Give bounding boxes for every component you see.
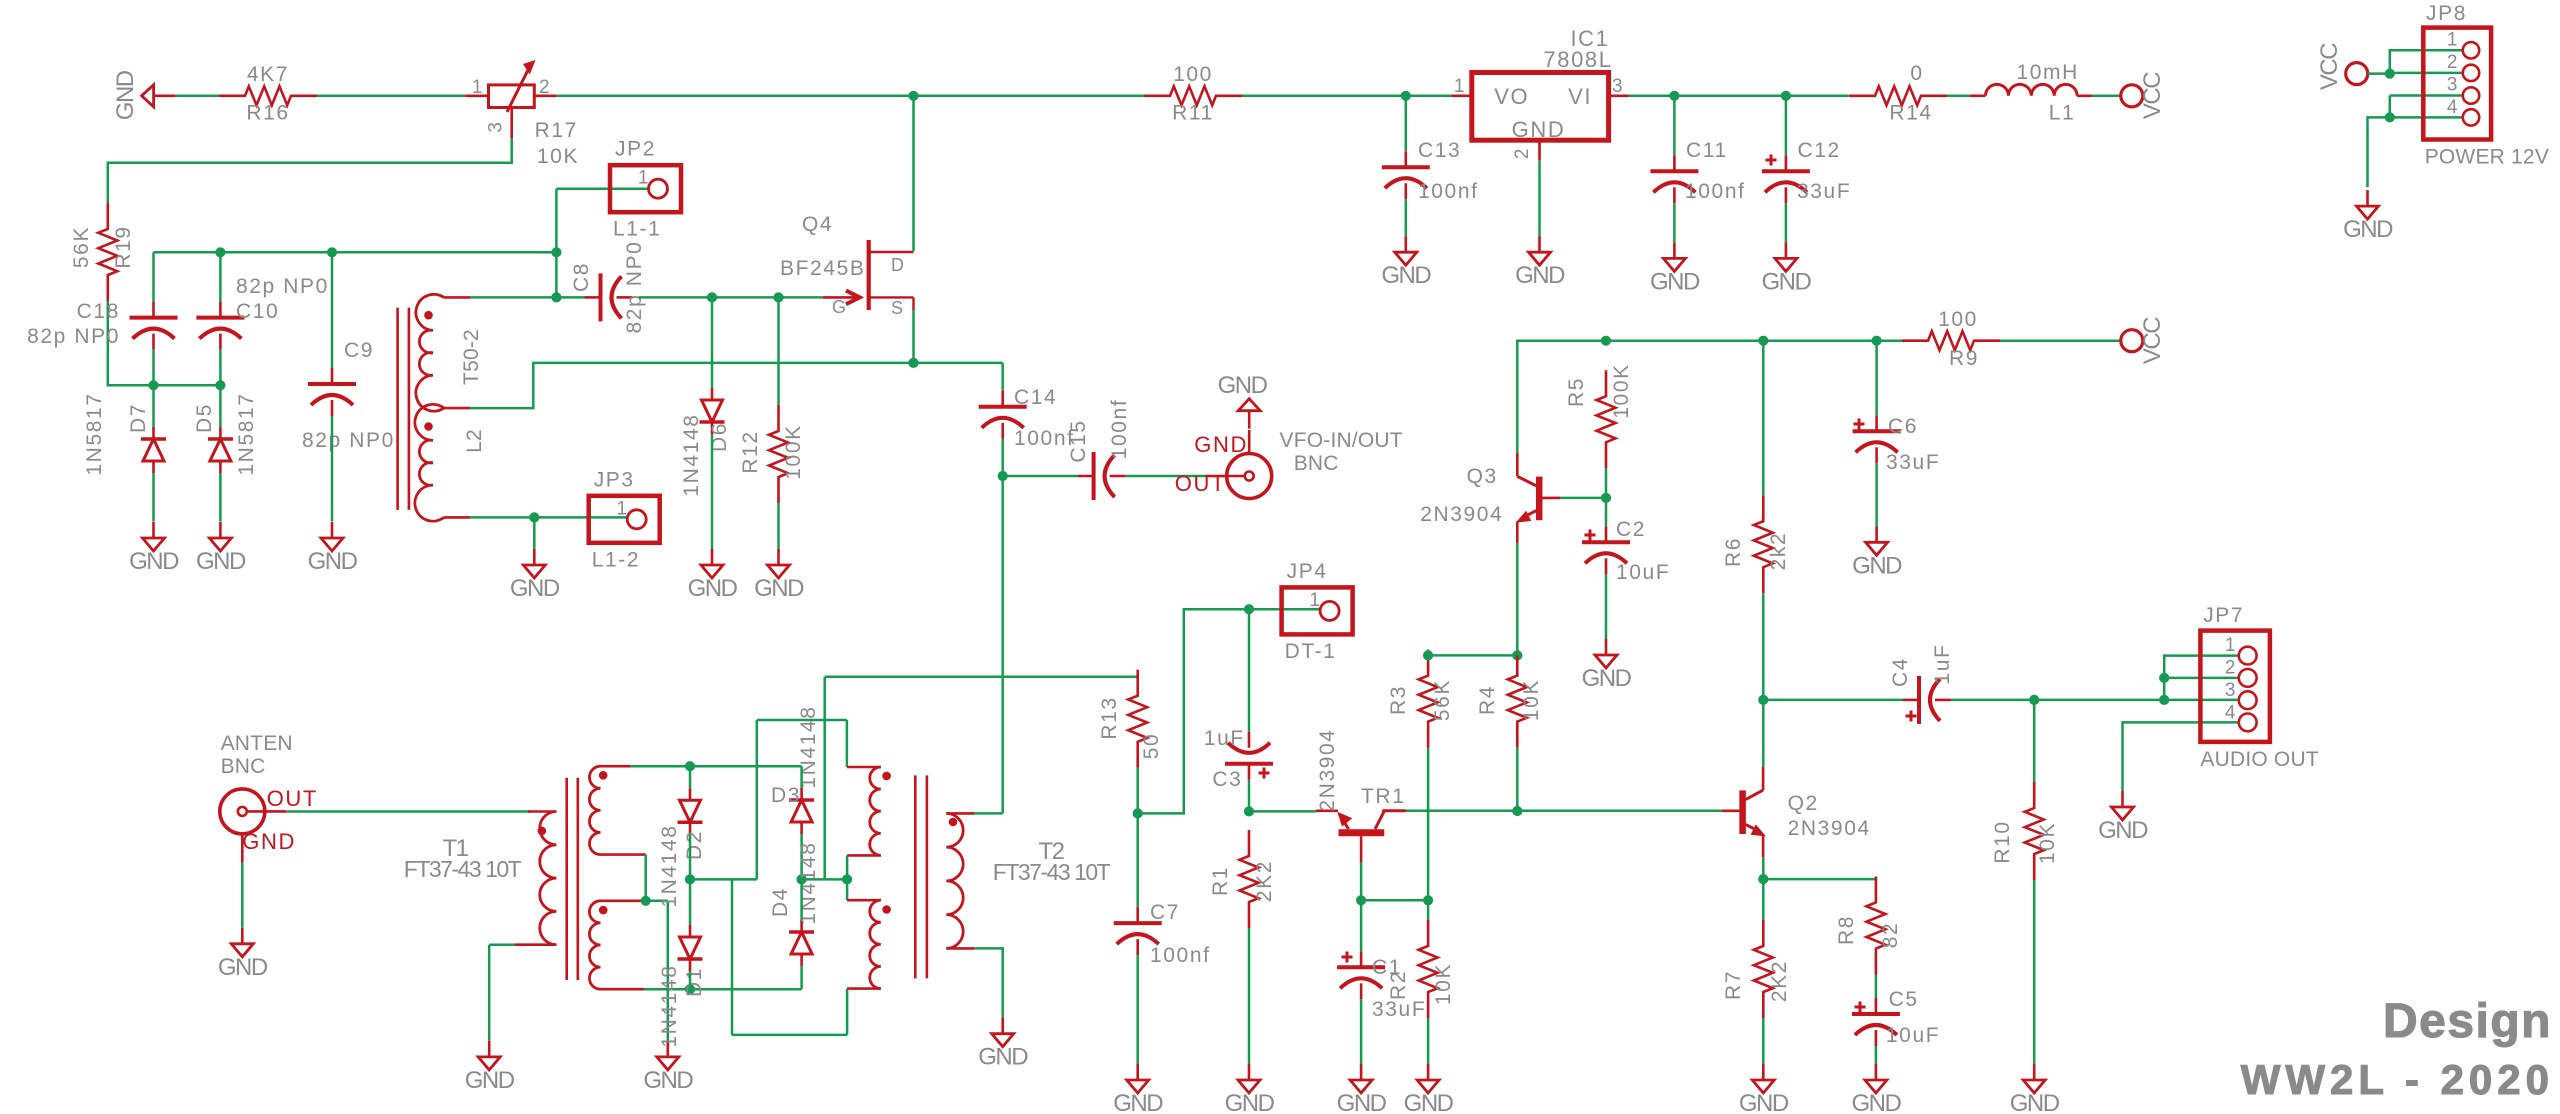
ground GND (left of R16)	[112, 70, 176, 120]
svg-text:33uF: 33uF	[1886, 451, 1940, 474]
svg-text:VCC: VCC	[2139, 317, 2166, 364]
wire (TR1 emitter)	[1249, 810, 1316, 813]
wire	[800, 766, 803, 879]
svg-text:GND: GND	[1512, 117, 1566, 142]
capacitor C8	[570, 241, 646, 334]
ground (D6)	[688, 549, 738, 602]
svg-text:GND: GND	[1337, 1090, 1387, 1114]
svg-text:FT37-43 10T: FT37-43 10T	[404, 856, 522, 882]
svg-text:3: 3	[1612, 76, 1624, 97]
svg-text:82p NP0: 82p NP0	[623, 241, 646, 334]
transistor TR1 2N3904	[1316, 728, 1406, 862]
ground (D7)	[129, 522, 179, 575]
junction (T1 bottom/D1)	[685, 984, 695, 994]
svg-text:C2: C2	[1616, 518, 1646, 541]
ground (C12)	[1761, 242, 1811, 295]
junction (rail end)	[551, 247, 561, 257]
wire	[1136, 955, 1139, 1064]
junction (R5/C2/base)	[1601, 493, 1611, 503]
wire	[1629, 95, 1849, 98]
wire (source)	[912, 310, 915, 363]
wire	[1605, 468, 1608, 498]
wire	[2092, 95, 2120, 98]
resistor R8	[1835, 877, 1902, 975]
svg-text:GND: GND	[1650, 268, 1700, 295]
ground (R7)	[1739, 1064, 1789, 1114]
capacitor C18	[27, 300, 177, 350]
svg-text:BNC: BNC	[1294, 452, 1339, 475]
svg-text:100nf: 100nf	[1685, 180, 1746, 203]
wire	[152, 252, 155, 301]
svg-text:D7: D7	[127, 403, 150, 433]
wire	[1001, 439, 1004, 476]
ground (C13)	[1381, 236, 1431, 289]
connector JP3 L1-2	[589, 468, 660, 571]
wire (BNC to T1)	[286, 810, 531, 813]
svg-text:GND: GND	[1515, 262, 1565, 289]
ground (C9)	[308, 522, 358, 575]
svg-text:C4: C4	[1889, 657, 1912, 687]
svg-text:R4: R4	[1476, 685, 1499, 715]
wire (R17 pin3 to R19)	[108, 138, 512, 203]
resistor R16	[219, 63, 317, 125]
wire	[777, 297, 780, 549]
wire (sec bottom row)	[645, 988, 802, 991]
svg-text:R7: R7	[1722, 970, 1745, 1000]
junction (R6/C4 rail)	[1758, 695, 1768, 705]
capacitor C7	[1114, 901, 1211, 967]
svg-text:Q3: Q3	[1467, 465, 1498, 488]
svg-text:R8: R8	[1835, 915, 1858, 945]
svg-text:L2: L2	[463, 429, 486, 453]
junction (GND/JP8)	[2385, 112, 2395, 122]
svg-text:1N4148: 1N4148	[680, 413, 703, 496]
junction (Q3 emitter)	[1512, 650, 1522, 660]
wire	[1126, 475, 1205, 478]
power pin VCC (R9)	[2121, 317, 2166, 364]
wire (82p rail)	[154, 251, 557, 254]
svg-text:GND: GND	[688, 575, 738, 602]
svg-text:56K: 56K	[70, 226, 93, 268]
ground (T1 primary)	[465, 1041, 515, 1094]
wire	[108, 301, 221, 385]
resistor R11	[1144, 63, 1242, 125]
svg-text:GND: GND	[1739, 1090, 1789, 1114]
junction (R4/base Q2)	[1512, 806, 1522, 816]
svg-text:VCC: VCC	[2139, 72, 2166, 119]
svg-text:C5: C5	[1889, 988, 1919, 1011]
wire (to JP4)	[1138, 609, 1249, 813]
junction (T1 top/D2)	[685, 761, 695, 771]
ground (R2)	[1404, 1064, 1454, 1114]
wire	[1785, 203, 1788, 242]
wire (C14 drop to T2)	[1001, 476, 1004, 813]
svg-text:C10: C10	[236, 300, 279, 323]
wire	[317, 95, 465, 98]
wire	[689, 766, 692, 879]
junction (center tap T2)	[842, 874, 852, 884]
wire (JP7 pin4)	[2123, 722, 2239, 791]
wire	[2390, 96, 2463, 118]
svg-text:GND: GND	[1218, 372, 1268, 399]
wire	[1947, 95, 1970, 98]
svg-text:100: 100	[1173, 63, 1213, 86]
svg-text:3: 3	[486, 120, 507, 132]
svg-text:JP2: JP2	[615, 138, 656, 161]
svg-text:R13: R13	[1098, 696, 1121, 739]
svg-text:2K2: 2K2	[1768, 960, 1791, 1002]
capacitor C4	[1889, 644, 1954, 724]
junction (rail/C6)	[1872, 336, 1882, 346]
power pin VCC (after L1)	[2121, 72, 2166, 119]
connector JP2 L1-1	[610, 138, 681, 241]
text Design	[2383, 995, 2552, 1048]
svg-text:0: 0	[1910, 62, 1923, 85]
wire	[2033, 700, 2036, 1064]
wire	[1538, 161, 1541, 237]
svg-text:VI: VI	[1568, 84, 1592, 109]
svg-text:R9: R9	[1949, 347, 1979, 370]
junction (TR1 base)	[1356, 895, 1366, 905]
junction (top rail / C13)	[1401, 91, 1411, 101]
svg-text:JP7: JP7	[2203, 604, 2244, 627]
svg-text:D4: D4	[769, 887, 792, 917]
junction (T1 center)	[641, 896, 651, 906]
connector X2 ANTEN BNC	[220, 732, 318, 862]
wire	[1875, 1046, 1878, 1064]
capacitor C2	[1582, 518, 1670, 584]
ground (C7)	[1113, 1064, 1163, 1114]
svg-text:WW2L - 2020: WW2L - 2020	[2241, 1056, 2554, 1103]
svg-text:R12: R12	[739, 430, 762, 473]
svg-text:10mH: 10mH	[2016, 61, 2078, 84]
svg-text:82p NP0: 82p NP0	[236, 275, 329, 298]
wire	[1673, 96, 1676, 156]
svg-text:C15: C15	[1067, 419, 1090, 462]
ground (L2)	[510, 549, 560, 602]
wire	[1248, 780, 1251, 812]
svg-text:FT37-43 10T: FT37-43 10T	[993, 859, 1111, 885]
junction (C3/R1/TR1-e)	[1244, 806, 1254, 816]
resistor R6	[1722, 495, 1790, 593]
svg-text:1: 1	[472, 77, 484, 98]
wire	[711, 297, 714, 549]
svg-text:JP4: JP4	[1287, 560, 1328, 583]
svg-text:GND: GND	[308, 548, 358, 575]
resistor R19	[70, 203, 135, 301]
transistor Q2 2N3904	[1722, 767, 1871, 858]
svg-text:D: D	[891, 255, 906, 275]
wire	[974, 812, 1003, 815]
wire	[489, 945, 515, 1041]
junction (R13/C7/JP4)	[1133, 808, 1143, 818]
wire	[1405, 199, 1408, 236]
svg-text:R11: R11	[1172, 102, 1214, 125]
svg-text:Design: Design	[2383, 995, 2552, 1048]
svg-text:C8: C8	[570, 262, 593, 292]
svg-text:2N3904: 2N3904	[1316, 728, 1339, 811]
svg-text:ANTEN: ANTEN	[221, 732, 293, 755]
svg-text:AUDIO OUT: AUDIO OUT	[2200, 748, 2318, 771]
svg-text:GND: GND	[510, 575, 560, 602]
svg-text:C14: C14	[1014, 386, 1057, 409]
svg-text:R17: R17	[535, 119, 578, 142]
transistor Q3 2N3904	[1420, 453, 1560, 544]
wire	[1673, 203, 1676, 242]
svg-text:100nf: 100nf	[1418, 180, 1479, 203]
ground (IC1)	[1515, 236, 1565, 289]
svg-text:3: 3	[2225, 680, 2237, 701]
connector JP4 DT-1	[1282, 560, 1353, 663]
wire (rail drop)	[823, 677, 826, 879]
ground (C5)	[1851, 1064, 1901, 1114]
wire (top link)	[757, 720, 847, 879]
diode D2	[658, 788, 706, 907]
junction (D3/D4)	[797, 874, 807, 884]
svg-text:4: 4	[2447, 97, 2459, 118]
svg-text:100nf: 100nf	[1150, 944, 1211, 967]
svg-text:G: G	[832, 297, 848, 317]
wire	[800, 879, 803, 989]
svg-text:C6: C6	[1888, 415, 1918, 438]
wire	[470, 296, 556, 299]
wire	[1875, 341, 1878, 527]
transformer L2 winding (bottom)	[415, 404, 486, 521]
svg-text:TR1: TR1	[1361, 785, 1405, 808]
wire (Q3 emitter)	[1516, 543, 1519, 655]
svg-text:4: 4	[2225, 703, 2237, 724]
svg-text:1: 1	[638, 168, 650, 189]
junction (JP4)	[1244, 604, 1254, 614]
svg-text:GND: GND	[1761, 268, 1811, 295]
wire	[1427, 748, 1430, 901]
wire	[331, 416, 334, 522]
wire	[1248, 928, 1251, 1064]
wire	[176, 95, 219, 98]
diode D7	[83, 392, 166, 475]
junction (rail/C10)	[215, 247, 225, 257]
capacitor C9	[302, 339, 395, 452]
wire (Q2 emitter)	[1762, 857, 1765, 879]
svg-text:100nf: 100nf	[1108, 399, 1131, 460]
svg-text:56K: 56K	[1431, 679, 1454, 721]
IC IC1 7808L regulator	[1452, 26, 1629, 161]
wire	[1360, 900, 1363, 951]
wire (to R8)	[1763, 877, 1876, 880]
wire (R3/R4 row)	[1428, 654, 1517, 657]
svg-text:1N4148: 1N4148	[658, 964, 681, 1047]
wire	[1763, 699, 1903, 702]
wire	[219, 252, 222, 301]
svg-text:1uF: 1uF	[1931, 644, 1954, 685]
junction (rail/R6)	[1758, 336, 1768, 346]
junction (R12)	[773, 292, 783, 302]
wire (JP7 pin2)	[2164, 677, 2239, 680]
svg-text:L1-2: L1-2	[592, 548, 640, 571]
svg-text:OUT: OUT	[1175, 471, 1226, 496]
svg-text:S: S	[891, 298, 905, 318]
junction (JP7 pin2)	[2159, 673, 2169, 683]
wire	[1605, 498, 1608, 639]
wire (JP7 pin1)	[2164, 656, 2239, 700]
svg-text:BNC: BNC	[221, 755, 266, 778]
wire (middle tap to source rail)	[470, 363, 1003, 408]
ground (C11)	[1650, 242, 1700, 295]
svg-text:GND: GND	[465, 1067, 515, 1094]
resistor R5	[1565, 363, 1633, 468]
wire	[2368, 117, 2390, 187]
ground (T1 center tap)	[643, 1041, 693, 1094]
svg-text:GND: GND	[978, 1044, 1028, 1071]
transformer L2 winding (top)	[416, 294, 483, 411]
resistor R12	[739, 405, 805, 503]
wire (center tap to gnd)	[646, 901, 668, 1041]
diode D3	[771, 705, 820, 834]
wire	[1361, 899, 1428, 902]
wire (Q3 collector)	[1517, 341, 1902, 453]
svg-text:2k2: 2k2	[1767, 532, 1790, 571]
svg-text:GND: GND	[1113, 1090, 1163, 1114]
junction (C18/D7)	[148, 380, 158, 390]
capacitor C6	[1853, 415, 1941, 474]
transformer T1 core	[567, 778, 578, 980]
capacitor C12	[1762, 139, 1851, 203]
svg-text:C7: C7	[1150, 901, 1180, 924]
svg-text:82: 82	[1879, 922, 1902, 949]
transformer T1 primary winding	[404, 812, 557, 945]
power pin VCC (JP8)	[2316, 43, 2368, 90]
wire (ring left)	[690, 879, 847, 1035]
junction (D6)	[707, 292, 717, 302]
wire	[533, 517, 536, 549]
svg-text:10K: 10K	[1432, 963, 1455, 1005]
wire	[219, 385, 222, 521]
wire	[1136, 768, 1139, 814]
connector X1 VFO BNC	[1175, 372, 1403, 499]
svg-text:GND: GND	[643, 1067, 693, 1094]
junction (JP7 pin3)	[2159, 695, 2169, 705]
capacitor C11	[1650, 139, 1745, 203]
svg-text:GND: GND	[2343, 216, 2393, 243]
svg-text:C9: C9	[344, 339, 374, 362]
wire	[1248, 609, 1251, 732]
junction (R3 top)	[1423, 650, 1433, 660]
svg-text:GND: GND	[218, 954, 268, 981]
junction (rail/R5)	[1601, 336, 1611, 346]
wire (drain)	[912, 96, 915, 252]
wire	[1136, 813, 1139, 907]
ground (R12)	[754, 549, 804, 602]
svg-text:33uF: 33uF	[1372, 998, 1426, 1021]
wire	[1762, 341, 1765, 700]
svg-text:2: 2	[1512, 147, 1533, 159]
ground (T2 secondary)	[978, 1018, 1028, 1071]
svg-text:R14: R14	[1889, 102, 1932, 125]
wire (TR1 base)	[1360, 862, 1363, 900]
wire	[1785, 96, 1788, 156]
wire (TR1 collector)	[1406, 810, 1722, 813]
svg-text:L1: L1	[2049, 102, 2076, 125]
svg-text:VFO-IN/OUT: VFO-IN/OUT	[1280, 429, 1403, 452]
junction (C11)	[1669, 91, 1679, 101]
wire	[1427, 650, 1430, 656]
ground (R1)	[1225, 1064, 1275, 1114]
resistor R14	[1849, 62, 1947, 125]
svg-text:GND: GND	[2010, 1090, 2060, 1114]
svg-text:1: 1	[2225, 635, 2237, 656]
wire	[241, 862, 244, 928]
svg-text:33uF: 33uF	[1797, 180, 1851, 203]
junction (VCC/JP8)	[2385, 69, 2395, 79]
junction (T50-2 top / C8)	[551, 292, 561, 302]
svg-text:100K: 100K	[1610, 363, 1633, 418]
svg-text:10uF: 10uF	[1886, 1024, 1940, 1047]
svg-text:100: 100	[1938, 308, 1978, 331]
svg-text:R16: R16	[246, 102, 289, 125]
svg-text:GND: GND	[1852, 552, 1902, 579]
wire (Q2 collector)	[1762, 700, 1765, 767]
svg-text:GND: GND	[1582, 665, 1632, 692]
svg-text:2: 2	[2447, 52, 2459, 73]
wire (sec top pin)	[630, 765, 802, 768]
svg-text:10K: 10K	[2036, 822, 2059, 864]
svg-text:1N5817: 1N5817	[83, 392, 106, 475]
resistor R4	[1476, 650, 1543, 748]
svg-text:2N3904: 2N3904	[1788, 817, 1871, 840]
junction (C14/C15)	[998, 471, 1008, 481]
ground (JP8)	[2343, 190, 2393, 243]
wire	[846, 855, 849, 900]
svg-text:R2: R2	[1387, 970, 1410, 1000]
diode D6	[680, 388, 731, 497]
svg-text:1N5817: 1N5817	[235, 392, 258, 475]
transformer L2 T50-2 core	[398, 308, 409, 510]
transformer T2 winding (left top)	[847, 767, 1111, 885]
svg-text:GND: GND	[1381, 262, 1431, 289]
junction (Q2 emitter)	[1758, 874, 1768, 884]
svg-text:JP8: JP8	[2426, 2, 2467, 25]
svg-text:R5: R5	[1565, 377, 1588, 407]
svg-text:C12: C12	[1798, 139, 1841, 162]
capacitor C1	[1337, 951, 1426, 1021]
svg-text:7808L: 7808L	[1543, 47, 1612, 72]
svg-text:T50-2: T50-2	[460, 329, 483, 385]
svg-text:R3: R3	[1387, 685, 1410, 715]
wire	[1875, 975, 1878, 999]
svg-text:GND: GND	[1404, 1090, 1454, 1114]
wire (bottom to JP3)	[470, 516, 629, 519]
resistor R1	[1209, 830, 1276, 928]
svg-text:R19: R19	[112, 225, 135, 268]
ground (R10)	[2010, 1064, 2060, 1114]
wire	[152, 350, 155, 386]
svg-text:Q2: Q2	[1788, 792, 1819, 815]
svg-text:50: 50	[1140, 733, 1163, 760]
svg-text:2: 2	[2225, 658, 2237, 679]
wire	[639, 296, 823, 299]
wire	[1003, 475, 1078, 478]
resistor R9	[1902, 308, 2000, 370]
wire	[2368, 72, 2390, 75]
svg-text:4K7: 4K7	[247, 63, 289, 86]
potentiometer R17	[465, 60, 579, 168]
capacitor C14	[979, 386, 1075, 450]
resistor R10	[1991, 782, 2059, 880]
wire	[331, 252, 334, 368]
ground (C1)	[1337, 1064, 1387, 1114]
svg-text:1: 1	[1309, 590, 1321, 611]
capacitor C5	[1852, 988, 1940, 1047]
